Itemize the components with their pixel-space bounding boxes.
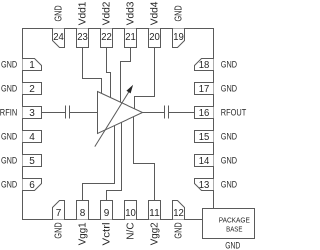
pin 16 — [195, 107, 214, 120]
svg-text:Vgg2: Vgg2 — [149, 222, 160, 245]
pin 5 — [23, 155, 42, 168]
svg-text:GND: GND — [221, 132, 237, 142]
svg-text:GND: GND — [221, 156, 237, 166]
wire Vdd1 pin 23 to amplifier top — [83, 48, 102, 94]
svg-text:22: 22 — [101, 32, 112, 43]
svg-text:BASE: BASE — [226, 225, 242, 234]
svg-text:5: 5 — [29, 156, 35, 167]
svg-text:23: 23 — [77, 32, 88, 43]
wire Vdd2 pin 22 to amplifier top — [107, 48, 111, 98]
svg-text:GND: GND — [221, 180, 237, 190]
pin 4 — [23, 131, 42, 144]
svg-text:GND: GND — [1, 132, 17, 142]
svg-text:GND: GND — [53, 5, 64, 21]
gain control arrow head — [126, 85, 133, 94]
pin 11 — [149, 201, 161, 220]
pin 10 — [125, 201, 137, 220]
wire Vdd4 pin 20 to amplifier top — [135, 48, 155, 109]
pin 21 — [125, 29, 137, 48]
svg-text:Vdd3: Vdd3 — [125, 1, 136, 25]
capacitor C1 input DC block — [66, 106, 70, 119]
svg-text:PACKAGE: PACKAGE — [219, 215, 250, 224]
svg-text:19: 19 — [173, 32, 184, 43]
svg-text:RFOUT: RFOUT — [221, 108, 247, 118]
svg-text:GND: GND — [1, 84, 17, 94]
pin 14 — [195, 155, 214, 168]
svg-text:24: 24 — [53, 32, 64, 43]
pin 1 — [23, 59, 42, 72]
svg-text:20: 20 — [149, 32, 160, 43]
svg-text:GND: GND — [53, 222, 64, 238]
pin 17 — [195, 83, 214, 96]
pin 13 — [195, 179, 214, 192]
op-amp U1 variable gain amplifier triangle — [98, 92, 143, 134]
svg-text:21: 21 — [125, 32, 136, 43]
svg-text:GND: GND — [221, 84, 237, 94]
pin 24 — [53, 29, 65, 48]
svg-text:GND: GND — [1, 60, 17, 70]
pin 15 — [195, 131, 214, 144]
svg-text:GND: GND — [1, 180, 17, 190]
svg-text:Vdd1: Vdd1 — [77, 1, 88, 25]
svg-text:3: 3 — [29, 108, 35, 119]
pin 19 — [173, 29, 185, 48]
svg-text:7: 7 — [56, 208, 62, 219]
svg-text:8: 8 — [80, 208, 86, 219]
svg-text:11: 11 — [149, 208, 160, 219]
svg-text:13: 13 — [199, 180, 210, 191]
pin 9 — [101, 201, 113, 220]
pin 23 — [77, 29, 89, 48]
wire output capacitor to RFOUT pin 16 — [169, 112, 195, 114]
pin 2 — [23, 83, 42, 96]
svg-text:17: 17 — [199, 84, 210, 95]
svg-text:12: 12 — [173, 208, 184, 219]
svg-text:16: 16 — [199, 108, 210, 119]
svg-text:RFIN: RFIN — [0, 108, 17, 118]
svg-text:N/C: N/C — [125, 222, 136, 239]
wire Vctrl pin 9 to amplifier bottom — [107, 122, 122, 200]
svg-text:6: 6 — [29, 180, 35, 191]
wire Vgg1 pin 8 to amplifier bottom — [83, 126, 115, 201]
svg-text:Vctrl: Vctrl — [101, 222, 112, 245]
pin 18 — [195, 59, 214, 72]
wire Vdd3 pin 21 to amplifier top — [121, 48, 131, 103]
package base pad box — [203, 209, 255, 239]
svg-text:9: 9 — [104, 208, 110, 219]
svg-text:Vgg1: Vgg1 — [77, 222, 88, 245]
package outline — [23, 29, 214, 220]
svg-text:4: 4 — [29, 132, 35, 143]
svg-text:GND: GND — [221, 60, 237, 70]
svg-text:15: 15 — [199, 132, 210, 143]
pin 22 — [101, 29, 113, 48]
svg-text:2: 2 — [29, 84, 35, 95]
svg-text:Vdd2: Vdd2 — [101, 1, 112, 25]
svg-text:GND: GND — [1, 156, 17, 166]
pin 8 — [77, 201, 89, 220]
svg-text:Vdd4: Vdd4 — [149, 1, 160, 25]
pin 3 — [23, 107, 42, 120]
wire Vgg2 pin 11 to amplifier bottom — [134, 117, 155, 201]
svg-text:18: 18 — [199, 60, 210, 71]
svg-text:GND: GND — [225, 240, 240, 250]
gain control arrow shaft — [95, 91, 130, 147]
capacitor C2 output DC block — [165, 106, 169, 119]
pin 7 — [53, 201, 65, 220]
svg-text:14: 14 — [199, 156, 210, 167]
wire RFIN pin 3 to input capacitor — [42, 112, 66, 114]
pin 20 — [149, 29, 161, 48]
pin 6 — [23, 179, 42, 192]
wire amplifier output to output capacitor — [143, 112, 165, 114]
svg-text:1: 1 — [29, 60, 35, 71]
svg-text:GND: GND — [173, 5, 184, 21]
svg-text:10: 10 — [125, 208, 136, 219]
wire input capacitor to amplifier input — [70, 112, 98, 114]
svg-text:GND: GND — [173, 222, 184, 238]
pin 12 — [173, 201, 185, 220]
